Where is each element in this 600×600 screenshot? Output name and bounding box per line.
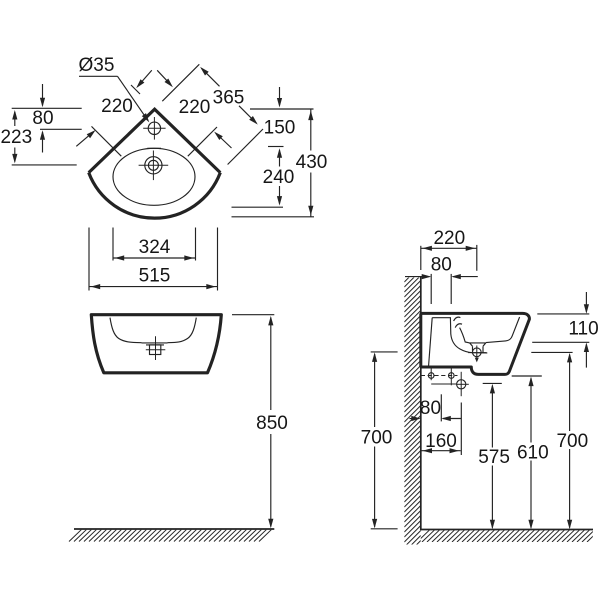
dimension 515 line (89, 286, 218, 288)
fixing hole left (side view) (428, 373, 434, 379)
dimension 80 (side top): left arrow (405, 276, 430, 278)
dimension 80 (side top): right arrow (453, 276, 478, 278)
bolt axis extension left (430, 274, 432, 304)
extension line at drain level (left) (12, 164, 77, 166)
dimension 80 (side low): wall arrow (410, 418, 420, 420)
svg-text:110: 110 (568, 319, 598, 340)
bolt axis extension right (450, 274, 452, 304)
dimension 220 upper-right: extension line from corner (162, 64, 199, 101)
dimension 110: bottom arrow (585, 345, 587, 368)
extension line at corner level (left) (12, 107, 82, 109)
interior back section (side view) (432, 318, 487, 353)
svg-text:575: 575 (478, 447, 510, 468)
svg-text:80: 80 (32, 108, 53, 129)
dimension 160 line (421, 450, 461, 452)
dimension 220 upper-left: extension tick near corner (131, 85, 140, 94)
dimension 220 (side): extension left (420, 246, 422, 270)
svg-text:223: 223 (0, 127, 32, 148)
dimension 80 (side low): right arrow (443, 418, 461, 420)
svg-text:220: 220 (101, 96, 133, 117)
svg-text:220: 220 (179, 97, 211, 118)
fixing hole right (side view) (449, 373, 455, 379)
extension line right corner (bottom) (217, 228, 219, 291)
dimension 223: bottom arrow (14, 148, 16, 162)
dimension 575: extension tick (483, 382, 502, 384)
tap hole Ø35 (plan view) (148, 122, 160, 134)
fixing holes dashed axis (side view) (421, 375, 458, 377)
dimension 80: bottom arrow (42, 132, 44, 153)
dimension 220 upper-left: arrow at oval end (76, 132, 93, 147)
dimension 220 (side): extension right (476, 245, 478, 271)
dimension 700 left line (374, 354, 376, 427)
floor line (front view) (74, 528, 274, 530)
svg-text:80: 80 (431, 254, 452, 275)
dimension 220 (side) line (421, 247, 477, 249)
svg-text:430: 430 (296, 152, 328, 173)
inner rim line (side view) (486, 317, 520, 343)
svg-text:220: 220 (433, 228, 465, 249)
svg-text:240: 240 (263, 167, 295, 188)
svg-text:Ø35: Ø35 (79, 55, 115, 76)
dimension 610: extension (512, 375, 542, 377)
svg-text:324: 324 (139, 237, 171, 258)
extension line inner-front level (right) (232, 206, 284, 208)
dimension 80: top arrow (42, 84, 44, 106)
dimension 850 line (270, 318, 272, 410)
drain box (side view) (472, 346, 474, 352)
dimension 610 line (530, 378, 532, 442)
svg-text:80: 80 (420, 398, 441, 419)
dimension 220 upper-left: arrow at corner end (138, 70, 152, 86)
dimension 223: top arrow (14, 112, 16, 126)
flow arrow under drain (side view) (475, 358, 479, 363)
wall line (side view) (420, 277, 422, 531)
dimension 700 right line (569, 355, 571, 432)
drain plug circle (side view) (472, 348, 481, 357)
washbasin outline (front view) (91, 315, 221, 373)
dimension 365: extension line from right corner (228, 129, 263, 165)
dimension 110: extension top (537, 313, 589, 315)
dimension 150: top arrow (279, 87, 281, 105)
dimension 240: bottom arrow (279, 186, 281, 204)
dimension 110: extension bottom (532, 341, 589, 343)
extension line oval left (bottom) (112, 228, 114, 261)
inner basin oval (plan view) (113, 148, 195, 205)
extension line front level (right) (232, 216, 315, 218)
extension line basin top (front view) (232, 314, 274, 316)
overflow slot mark (plan view) (147, 147, 161, 149)
dimension 220 upper-right: extension line through edge (188, 127, 217, 156)
extension line at tap level (left) (40, 128, 82, 130)
corner washbasin outline (plan view) (89, 109, 221, 172)
svg-text:150: 150 (264, 118, 296, 139)
dimension 365 dim line lower segment (239, 106, 256, 123)
washbasin outline (side view) (421, 313, 530, 374)
drain axis extension (side view) (460, 403, 462, 456)
wall hatching (404, 266, 421, 558)
dimension 575 line (491, 386, 493, 448)
extension line left corner (bottom) (88, 228, 90, 291)
waste outlet circle (side view) (457, 380, 466, 389)
extension tick oval-top level (right) (268, 146, 284, 148)
overflow break squiggle (side view) (454, 317, 462, 327)
inner bowl line (front view) (110, 318, 142, 343)
floor hatching (front view) (69, 530, 81, 542)
dimension 220 upper-right: arrow at corner end (157, 70, 171, 85)
drain flange (side view) (470, 342, 486, 344)
svg-text:160: 160 (425, 431, 457, 452)
dimension 430 line upper (310, 109, 312, 151)
dimension 324 line (113, 257, 196, 259)
floor line (side view) (421, 529, 593, 531)
svg-text:610: 610 (517, 442, 549, 463)
drain flange (front view) (142, 342, 168, 344)
svg-text:700: 700 (361, 428, 393, 449)
svg-text:515: 515 (139, 266, 171, 287)
dimension 220 upper-right: arrow at oval end (216, 134, 231, 149)
extension line corner level (right) (250, 108, 314, 110)
drain box (front view) (150, 345, 161, 355)
svg-text:365: 365 (213, 88, 245, 109)
dimension 430 line lower (310, 173, 312, 217)
overflow channel line (side view) (460, 328, 470, 343)
dimension 700 left: extension (371, 351, 398, 353)
dimension 220 upper-left: extension line through edge (92, 126, 122, 156)
svg-text:850: 850 (256, 413, 288, 434)
dimension 150/240 shared arrow (279, 150, 281, 166)
floor hatching (side view) (417, 530, 599, 542)
tap axis extension (side view) (440, 394, 442, 421)
drain with crosshair (plan view) (145, 157, 162, 174)
dimension 110: top arrow (585, 292, 587, 312)
dimension 365 dim line upper segment (202, 68, 220, 86)
dimension 700 right: extension (531, 351, 572, 353)
svg-text:700: 700 (556, 431, 588, 452)
drain crosshair (front view) (155, 336, 157, 360)
extension line oval right (bottom) (195, 228, 197, 261)
